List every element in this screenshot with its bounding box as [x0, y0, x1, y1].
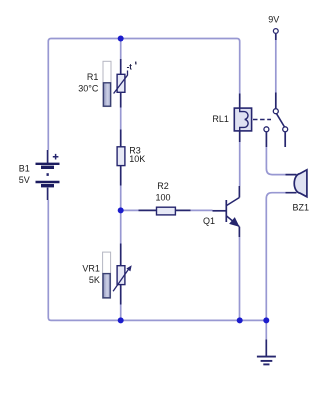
svg-text:B1: B1 — [19, 164, 30, 174]
wire thermistor to R3 segment — [120, 108, 122, 130]
label -t deg — [127, 62, 136, 72]
svg-text:10K: 10K — [129, 154, 145, 164]
buzzer BZ1 — [286, 170, 307, 197]
wire R2 to Q1 base — [191, 209, 213, 211]
resistor R2 leads — [139, 209, 191, 211]
resistor R2 — [157, 207, 176, 215]
svg-text:5V: 5V — [19, 175, 30, 185]
label 10K — [129, 154, 145, 164]
wire node B to R2 — [121, 209, 139, 211]
svg-text:30°C: 30°C — [78, 84, 99, 94]
thermistor R1 slider bar — [103, 61, 111, 106]
switch lever — [277, 114, 285, 127]
9V power terminal — [273, 29, 278, 40]
relay RL1 leads — [239, 94, 241, 143]
label R3 — [129, 146, 141, 156]
switch pivot terminal — [273, 109, 278, 114]
wire top horizontal rail — [48, 39, 239, 42]
svg-text:-t: -t — [127, 63, 133, 72]
svg-text:5K: 5K — [89, 275, 100, 285]
label 100 — [155, 193, 170, 203]
ground — [257, 340, 276, 365]
label 5V — [19, 175, 30, 185]
wire Q1 emitter to bottom rail — [239, 237, 241, 320]
label VR1 — [82, 264, 100, 274]
wire VR1 to bottom rail segment — [120, 305, 122, 321]
wire switch NC contact to buzzer top terminal — [266, 147, 285, 175]
thermistor R1 — [114, 71, 128, 94]
svg-text:R1: R1 — [87, 72, 99, 82]
svg-text:100: 100 — [155, 193, 170, 203]
label B1 — [19, 164, 30, 174]
label R2 — [157, 181, 169, 191]
resistor R3 — [117, 147, 125, 166]
junction node top — [118, 36, 124, 42]
label 9V — [268, 14, 279, 24]
switch NO contact terminal — [283, 127, 288, 132]
thermistor R1 leads — [120, 59, 122, 108]
svg-text:RL1: RL1 — [212, 114, 229, 124]
relay RL1 — [234, 108, 251, 131]
label RL1 — [212, 114, 229, 124]
svg-text:BZ1: BZ1 — [293, 203, 310, 213]
junction node ground — [263, 317, 269, 323]
potentiometer VR1 — [113, 265, 132, 291]
junction node emitter-bottom — [237, 317, 243, 323]
wire relay to Q1 collector — [239, 142, 241, 186]
wire right rail to relay — [239, 42, 241, 94]
wire R3 to node B segment — [120, 186, 122, 244]
svg-text:R2: R2 — [157, 181, 169, 191]
switch top lead — [275, 93, 277, 109]
wire bottom rail — [51, 319, 266, 321]
label 30degC — [78, 84, 99, 94]
junction node B (R2 tap) — [118, 207, 124, 213]
svg-text:9V: 9V — [268, 14, 279, 24]
label 5K — [89, 275, 100, 285]
wire thermistor column top segment — [120, 39, 122, 60]
wire ground node stub — [265, 320, 267, 339]
wire 9V to switch — [275, 40, 277, 93]
switch NO contact lead — [284, 132, 286, 147]
wire buzzer bottom terminal to ground node — [266, 193, 285, 321]
potentiometer VR1 leads — [120, 244, 122, 305]
resistor R3 leads — [120, 130, 122, 186]
switch NC contact terminal — [264, 127, 269, 132]
label BZ1 — [293, 203, 310, 213]
relay-switch dashed link — [253, 119, 271, 121]
battery B1 — [36, 150, 60, 200]
label R1 — [87, 72, 99, 82]
svg-text:Q1: Q1 — [203, 216, 215, 226]
switch NC contact lead — [265, 132, 267, 147]
svg-text:VR1: VR1 — [82, 264, 100, 274]
potentiometer VR1 slider bar — [103, 252, 111, 298]
junction node bottom left — [118, 317, 124, 323]
wire left rail — [48, 42, 51, 321]
transistor Q1 — [213, 186, 240, 237]
label Q1 — [203, 216, 215, 226]
